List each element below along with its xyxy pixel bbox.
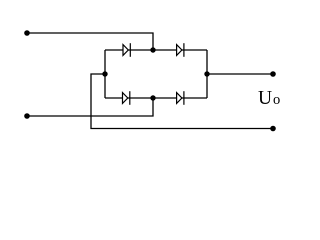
junction top — [150, 47, 155, 52]
wire — [105, 49, 123, 51]
wire — [27, 98, 153, 116]
wire — [207, 73, 273, 75]
wire — [128, 49, 176, 51]
terminal input top — [24, 30, 30, 36]
wire — [91, 74, 273, 129]
junction bottom — [150, 95, 155, 100]
wire — [182, 49, 207, 51]
svg-text:o: o — [273, 92, 280, 108]
svg-text:U: U — [258, 88, 272, 109]
wire — [182, 97, 207, 99]
terminal output top — [270, 71, 276, 77]
diode D3 — [123, 91, 130, 105]
diode D1 — [123, 43, 130, 57]
terminal output bottom — [270, 126, 276, 132]
wire — [27, 33, 153, 50]
diode D4 — [177, 91, 184, 105]
wire — [104, 50, 106, 98]
junction right — [204, 71, 209, 76]
terminal input bottom — [24, 113, 30, 119]
wire — [105, 97, 123, 99]
junction left — [102, 71, 107, 76]
wire — [128, 97, 177, 99]
diode D2 — [177, 43, 184, 57]
wire — [206, 50, 208, 98]
